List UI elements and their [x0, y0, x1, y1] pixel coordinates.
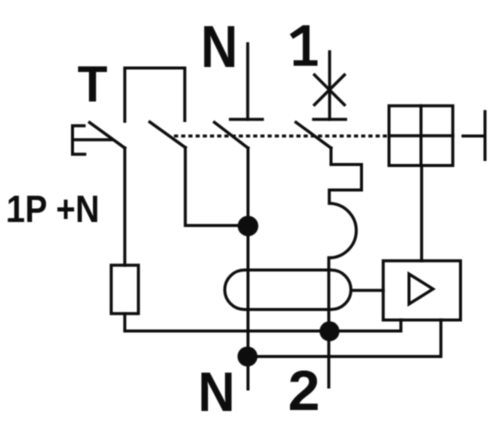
wire toroid to amplifier [351, 289, 383, 292]
wire S2 bottom to node A [185, 148, 248, 226]
right terminal bar [484, 112, 487, 160]
svg-text:N: N [198, 360, 235, 423]
node B junction dot [320, 321, 340, 341]
terminal 1 X mark [315, 75, 345, 105]
label 1P +N [8, 218, 17, 222]
wire N conductor [247, 148, 250, 389]
mechanism box [389, 106, 453, 166]
node A junction dot [238, 216, 259, 237]
switch blade S3 pole N [214, 122, 248, 148]
wire mechanism to amplifier [420, 166, 423, 261]
amplifier triangle [409, 274, 433, 304]
test button link wire [73, 138, 113, 141]
test button symbol [73, 126, 85, 154]
mechanism box cross dividers [389, 106, 453, 166]
terminal N stub [246, 44, 249, 120]
svg-text:T: T [78, 56, 108, 113]
svg-text:2: 2 [288, 359, 320, 423]
wire top bracket (test pole to pole L top) [125, 68, 185, 121]
svg-text:N: N [201, 14, 238, 80]
amplifier box U1 [383, 261, 460, 320]
terminal 1 bar [314, 118, 346, 121]
terminal 1 stub [328, 52, 331, 120]
right terminal wire [463, 135, 485, 138]
mechanical linkage dashed [174, 135, 389, 138]
terminal N bar [230, 118, 262, 121]
switch blade S4 pole 1 [296, 122, 331, 148]
wire lower supply line to amp [248, 320, 441, 357]
switch blade S2 pole L [150, 122, 186, 148]
resistor R (test) [111, 265, 138, 313]
current transformer toroid [225, 270, 351, 310]
wire resistor bottom along y331 to amp stub [125, 314, 401, 331]
node C junction dot [238, 347, 258, 367]
wire S1 bottom to resistor [123, 148, 126, 265]
switch blade S1 test pole [90, 123, 125, 149]
overcurrent release step and coil, wire conductor 1 [329, 148, 362, 387]
svg-text:1P +N: 1P +N [7, 189, 100, 231]
label 1 top terminal (custom glyph with base serif) [290, 25, 318, 65]
